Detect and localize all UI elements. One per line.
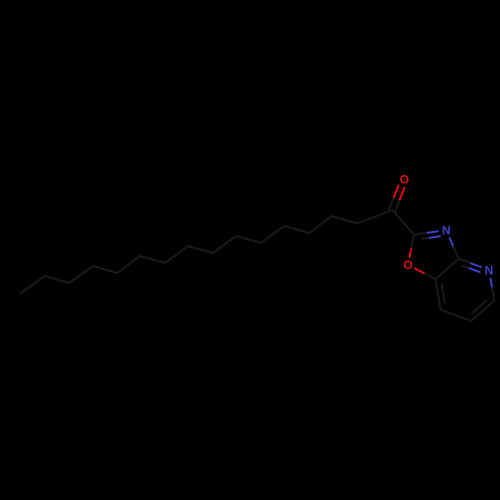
wire C3a=N4 inner <box>462 266 469 269</box>
wire C7a-O1 <box>424 273 436 279</box>
wire N4-C5 <box>491 278 493 287</box>
wire O1-C2 <box>410 247 412 257</box>
wire C2=N3 main <box>414 233 428 235</box>
wire C5=C6 inner <box>472 301 486 313</box>
wire C3a-C7a fusion <box>435 259 458 280</box>
svg-text:N: N <box>442 224 451 238</box>
wire C3a=N4 main <box>459 259 472 264</box>
wire C5=C6 main <box>471 301 494 322</box>
svg-text:O: O <box>403 258 412 272</box>
wire C2=N3 inner <box>422 238 430 239</box>
wire C6-C7 <box>441 310 471 321</box>
wire: alkyl chain C1-C15 <box>21 210 392 293</box>
svg-text:O: O <box>400 173 409 187</box>
wire CC-C2 <box>392 210 414 235</box>
wire C7=C7a main <box>435 279 440 310</box>
wire N3-C3a <box>450 238 454 247</box>
wire C7=C7a inner <box>442 284 445 302</box>
svg-text:N: N <box>485 263 494 277</box>
node C=O carbonyl double bond <box>395 200 400 212</box>
